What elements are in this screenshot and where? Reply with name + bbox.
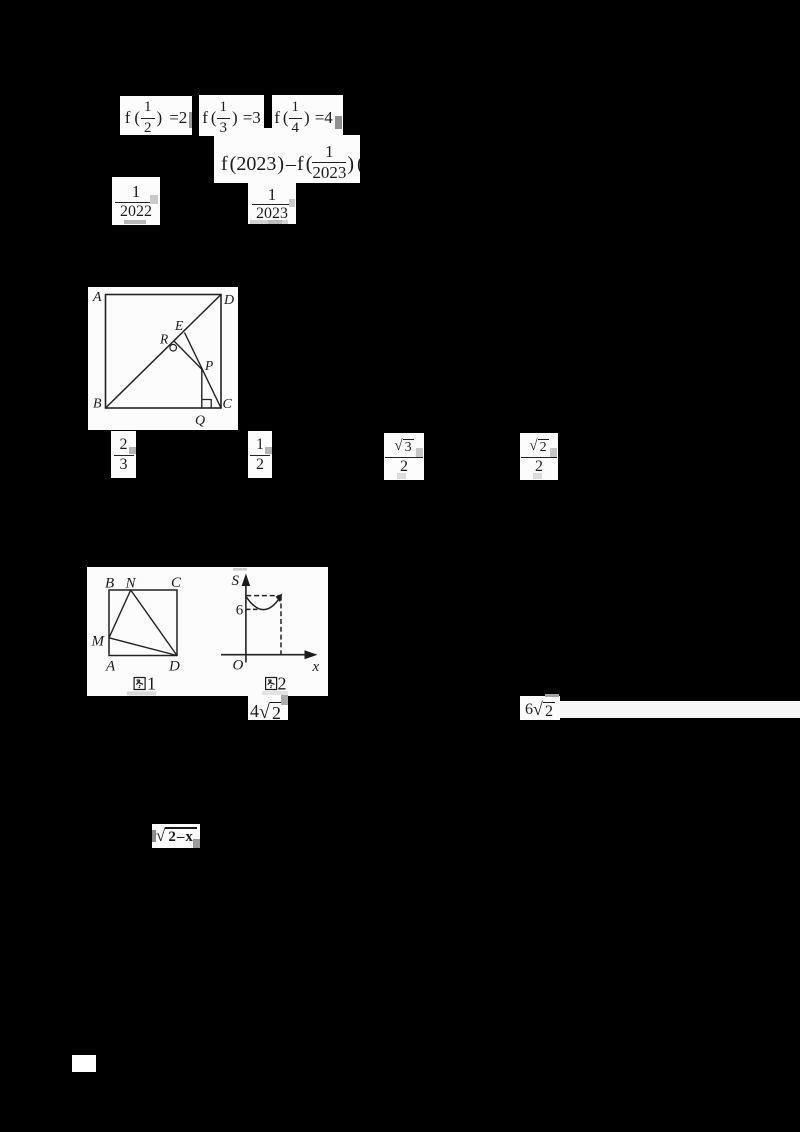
svg-text:D: D [223,293,234,308]
svg-text:A: A [92,290,102,305]
S axis [245,583,247,663]
svg-text:M: M [91,634,106,650]
geometry diagram: square ABCD with diagonal BD, points E,R,P,Q [88,287,238,430]
right-angle mark at Q [202,400,211,409]
arrow at curve end [276,594,283,603]
svg-text:6: 6 [236,603,244,619]
svg-text:x: x [312,659,320,675]
svg-text:R: R [159,332,169,347]
svg-text:C: C [223,397,233,412]
vertical PQ [201,370,203,409]
svg-text:C: C [171,575,182,591]
formula box f(1/3)=3 and f(1/4)=4 [199,95,343,136]
line ND [131,590,177,656]
gray artifact under caption [127,692,156,696]
svg-text:1: 1 [147,674,156,694]
dashed vertical line [280,596,282,654]
fraction box 1/2022 [112,177,160,225]
black notch between the two formulas [264,95,272,128]
gray artifact right of box1 [189,112,193,128]
dashed line at 6 [246,608,262,610]
caption 图2 [266,678,277,690]
fraction box 1/2 [248,431,272,478]
answer 4*sqrt(2) [248,695,288,720]
line RP [174,341,202,370]
gray scan artifact top edge [233,568,247,571]
fraction box sqrt(2)/2 [520,433,558,480]
curve in fig.2 [246,597,280,610]
formula box f(2023)-f(1/2023)) [214,135,360,183]
line EC [185,333,222,409]
fraction box 2/3 [111,431,136,478]
svg-text:P: P [204,358,213,373]
caption 图1 [134,678,145,690]
svg-text:Q: Q [195,414,205,429]
gray artifact right of =4 [335,116,342,129]
x axis [221,654,309,656]
svg-text:N: N [125,576,137,592]
square ABCD [106,295,222,409]
answer 6*sqrt(2) with white strip to right edge [520,696,560,720]
gray artifact under caption [265,692,287,697]
angle circle at R [170,344,177,351]
square ABCD of fig.1 [109,590,177,656]
svg-text:A: A [105,659,116,675]
svg-text:S: S [232,573,240,589]
small blank box bottom-left [72,1055,96,1072]
svg-text:B: B [105,576,114,592]
fraction box sqrt(3)/2 [384,433,424,480]
diagonal BD [106,295,222,409]
svg-text:D: D [168,659,180,675]
white strip [560,701,800,718]
line NM [109,590,131,638]
svg-text:O: O [233,658,244,674]
line MD [109,638,177,656]
dashed top line [246,595,281,597]
diagram box: 图1 square MND and 图2 graph [87,567,328,696]
svg-text:E: E [174,318,184,333]
svg-text:B: B [93,397,102,412]
formula sqrt(2-x) [152,824,200,848]
fraction box 1/2023 [248,183,296,224]
formula box f(1/2)=2 [120,96,192,135]
